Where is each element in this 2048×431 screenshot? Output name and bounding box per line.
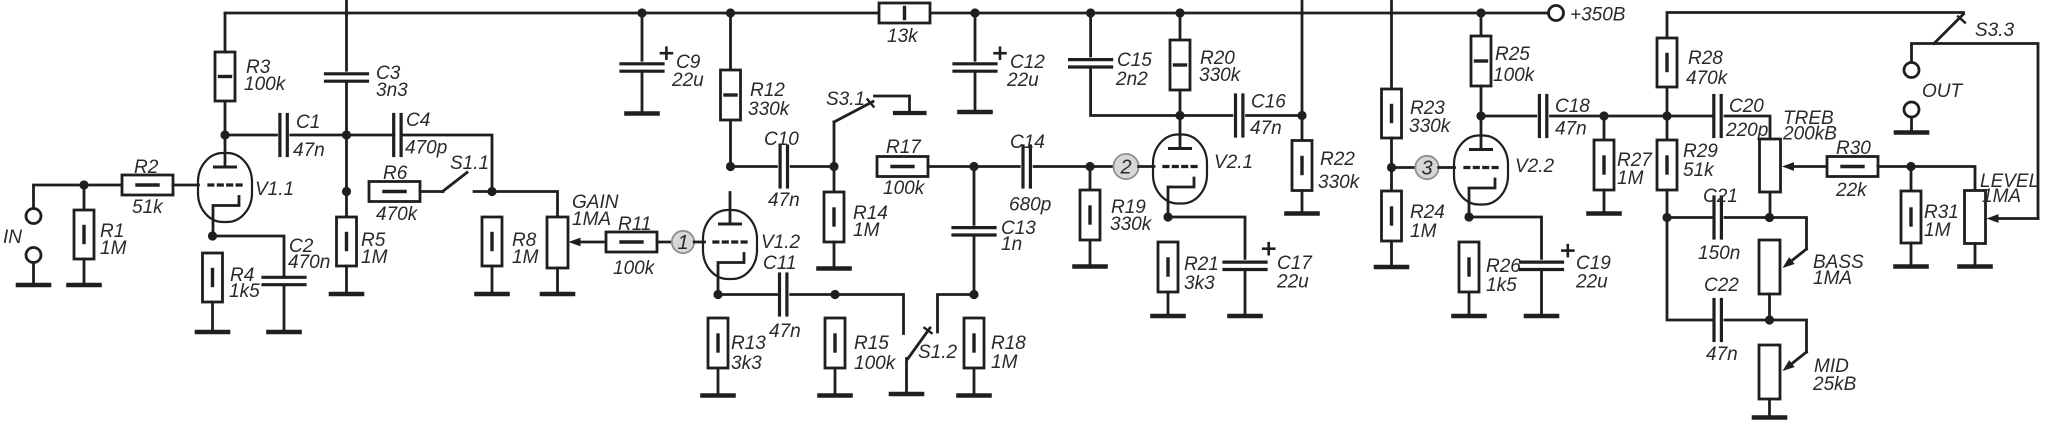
wire R1 top lead	[83, 185, 86, 210]
ground R27	[1589, 211, 1620, 216]
wire R28 top to S3.3	[1667, 13, 1964, 39]
wire OUT to S3.3 contact and level wiper	[1912, 44, 2039, 219]
wire TREB pot bottom lead	[1769, 192, 1772, 218]
capacitor C22	[1714, 300, 1721, 341]
svg-text:3k3: 3k3	[731, 353, 762, 374]
ground R21	[1153, 314, 1184, 319]
resistor R31	[1901, 191, 1921, 243]
svg-text:470p: 470p	[405, 138, 447, 159]
svg-text:C21: C21	[1703, 186, 1738, 207]
wire R1 bottom lead	[83, 259, 86, 283]
wiper arrow LEVEL	[1987, 214, 2039, 223]
resistor R18	[964, 318, 984, 368]
node BASS/MID/C22	[1765, 315, 1774, 324]
svg-text:200kB: 200kB	[1782, 124, 1837, 145]
svg-text:R17: R17	[886, 137, 922, 158]
wire C11 to R15 node	[791, 293, 835, 296]
svg-text:IN: IN	[3, 227, 22, 248]
ground R15	[820, 393, 851, 398]
svg-text:R15: R15	[854, 333, 889, 354]
resistor R21	[1158, 242, 1178, 292]
svg-text:S3.1: S3.1	[826, 89, 865, 110]
svg-text:470k: 470k	[376, 204, 419, 225]
wire bus corner to R3	[224, 13, 227, 52]
resistor R27	[1594, 140, 1614, 190]
wire MID pot bottom lead	[1768, 399, 1771, 416]
svg-text:330k: 330k	[1409, 116, 1452, 137]
resistor R26	[1459, 242, 1479, 292]
svg-text:3: 3	[1421, 158, 1432, 180]
wire cathode to C11	[718, 293, 777, 296]
capacitor C15	[1070, 60, 1112, 67]
wire R24 top lead	[1390, 168, 1393, 192]
svg-text:C1: C1	[296, 112, 320, 133]
wire R14 bottom lead	[833, 242, 836, 266]
ground R14	[819, 266, 850, 271]
wire off-page to C16/R22 node	[1301, 0, 1304, 116]
wire R20 bottom lead	[1179, 90, 1182, 116]
wire C14 to R19 node	[1034, 165, 1090, 168]
node V2.2 cathode	[1464, 212, 1473, 221]
resistor R19	[1080, 190, 1100, 240]
wire IN upper to grid node	[34, 185, 123, 209]
ground R18	[959, 393, 990, 398]
wire +350B bus left segment	[225, 12, 879, 15]
resistor R23	[1382, 89, 1402, 138]
svg-text:C10: C10	[764, 129, 799, 150]
wire BASS wiper riser	[1770, 218, 1807, 250]
wire anode to C10	[731, 165, 777, 168]
svg-text:100k: 100k	[854, 353, 897, 374]
ground S1.2	[891, 392, 922, 397]
svg-text:R2: R2	[134, 157, 159, 178]
svg-text:R12: R12	[750, 80, 785, 101]
resistor R22	[1292, 141, 1312, 191]
wire R24 bottom lead	[1390, 241, 1393, 265]
wire R11 to node 1	[657, 241, 672, 244]
svg-text:22u: 22u	[1006, 70, 1039, 91]
wire +350B bus right segment	[930, 12, 1549, 15]
node TREB/BASS	[1765, 213, 1774, 222]
wire R31 bottom lead	[1910, 243, 1913, 265]
switch S1.1	[443, 173, 468, 192]
svg-text:1: 1	[677, 232, 688, 254]
svg-text:C22: C22	[1704, 275, 1739, 296]
wire MID wiper riser	[1770, 320, 1807, 352]
switch S3.1 fixed contact bar	[895, 111, 925, 115]
capacitor C1	[280, 115, 287, 156]
switch S1.2	[907, 328, 932, 392]
svg-text:330k: 330k	[1318, 172, 1361, 193]
wire C12 top lead	[974, 13, 977, 60]
node V1.1 cathode	[208, 231, 217, 240]
capacitor C20	[1714, 96, 1721, 137]
wire GAIN pot bottom lead	[556, 268, 559, 292]
potentiometer BASS	[1759, 240, 1780, 294]
wire R13 bottom lead	[717, 368, 720, 393]
wire off-page to R23 top	[1390, 0, 1393, 89]
svg-text:47n: 47n	[1706, 344, 1738, 365]
triode V1.1	[198, 136, 252, 237]
capacitor C11	[780, 274, 787, 315]
svg-text:3k3: 3k3	[1184, 273, 1215, 294]
resistor R2	[122, 175, 173, 195]
node R5/R6	[342, 187, 351, 196]
capacitor C17 (polar)	[1224, 243, 1274, 269]
potentiometer GAIN 1MA	[547, 217, 568, 268]
resistor R28	[1657, 38, 1677, 87]
svg-text:1MA: 1MA	[572, 209, 611, 230]
node circle 1	[672, 231, 694, 254]
ground OUT	[1896, 130, 1927, 135]
wire C9 top lead	[641, 13, 644, 60]
wire R27 top lead	[1603, 116, 1606, 140]
resistor R6	[369, 182, 420, 202]
svg-text:R30: R30	[1836, 138, 1871, 159]
capacitor C18	[1539, 96, 1546, 137]
wire LEVEL pot bottom lead	[1974, 244, 1977, 265]
svg-text:R22: R22	[1320, 149, 1355, 170]
wire anode to C1	[225, 134, 277, 137]
node bus C12	[970, 8, 979, 17]
svg-text:100k: 100k	[883, 178, 926, 199]
node bus R12	[726, 8, 735, 17]
wire R25 bottom lead	[1480, 86, 1483, 116]
node V2.2 anode	[1476, 111, 1485, 120]
node C10/R17/R14/S3.1	[829, 162, 838, 171]
wire C1 to node A	[291, 134, 347, 137]
ground R22	[1287, 211, 1318, 216]
wire R22 bottom lead	[1301, 191, 1304, 212]
triode V1.2	[703, 193, 757, 295]
wire C12 bottom lead	[974, 71, 977, 110]
ground R13	[703, 393, 734, 398]
wire R21 bottom lead	[1167, 292, 1170, 314]
wire OUT lower to ground	[1910, 117, 1913, 130]
resistor R13	[708, 318, 728, 368]
triode V2.1	[1153, 117, 1207, 217]
svg-text:+350B: +350B	[1570, 5, 1626, 26]
ground C19	[1526, 314, 1557, 319]
wire C20 to TREB pot	[1725, 116, 1770, 139]
svg-text:C4: C4	[406, 110, 430, 131]
ground R19	[1075, 264, 1106, 269]
resistor R25	[1471, 36, 1491, 86]
svg-text:C16: C16	[1251, 92, 1286, 113]
ground C2	[269, 330, 300, 335]
resistor R1	[74, 210, 94, 259]
wire C13 column	[973, 167, 976, 225]
svg-text:1M: 1M	[100, 238, 127, 259]
svg-text:47n: 47n	[769, 321, 801, 342]
capacitor C21	[1714, 197, 1721, 238]
resistor R5	[337, 217, 357, 266]
svg-text:100k: 100k	[1493, 65, 1536, 86]
svg-text:470n: 470n	[288, 252, 330, 273]
svg-text:47n: 47n	[768, 190, 800, 211]
wire R25 top lead	[1480, 13, 1483, 36]
ground R5	[331, 292, 362, 297]
wire R23 bottom to node 3	[1390, 138, 1393, 168]
ground R26	[1454, 314, 1485, 319]
ground C12	[960, 110, 991, 115]
resistor R12	[721, 70, 741, 120]
wire C10 to S3.1 node	[791, 165, 834, 168]
node R18/S1.2	[969, 290, 978, 299]
wire C22 to MID node	[1725, 319, 1770, 322]
wire R29 bottom lead	[1666, 190, 1669, 218]
svg-text:C11: C11	[763, 253, 796, 274]
wire node A to C4	[347, 134, 394, 137]
svg-text:22u: 22u	[1575, 272, 1608, 293]
wire anode to C18	[1481, 115, 1536, 118]
ground C17	[1230, 314, 1261, 319]
wire node to C14	[974, 165, 1019, 168]
wire R28 bottom lead	[1666, 87, 1669, 116]
wire IN lower to ground	[32, 263, 35, 284]
wire C2 bottom lead	[283, 287, 286, 331]
svg-text:R18: R18	[991, 333, 1026, 354]
wire node to circle 2	[1090, 165, 1113, 168]
wire C19 bottom lead	[1540, 270, 1543, 315]
wire R3 bottom to anode node	[224, 101, 227, 135]
wire R12 bottom to anode node	[729, 120, 732, 167]
node R29/C21/C22	[1662, 213, 1671, 222]
wire R17 to C14 node	[928, 165, 974, 168]
wire R27 bottom lead	[1603, 190, 1606, 211]
wire node to C21	[1667, 216, 1714, 219]
svg-text:1k5: 1k5	[229, 281, 260, 302]
svg-text:51k: 51k	[132, 197, 164, 218]
wire cathode to C17	[1168, 217, 1245, 258]
resistor R14	[824, 192, 844, 242]
ground GAIN pot	[542, 292, 573, 297]
wire node to C20	[1667, 115, 1714, 118]
wire cathode to C19	[1469, 217, 1542, 258]
svg-text:1MA: 1MA	[1982, 186, 2021, 207]
terminal IN upper	[26, 209, 41, 224]
node A C1/C3/C4	[342, 130, 351, 139]
resistor R4	[203, 253, 223, 302]
svg-text:47n: 47n	[293, 140, 325, 161]
svg-text:C18: C18	[1555, 96, 1590, 117]
wiper arrow MID	[1783, 352, 1807, 371]
svg-text:22u: 22u	[671, 70, 704, 91]
wire S1.2 right contact to R18 node	[938, 295, 975, 333]
svg-text:V2.2: V2.2	[1515, 156, 1555, 177]
wire C13 to R18 node	[973, 235, 976, 295]
wire R19 bottom lead	[1089, 240, 1092, 264]
triode V2.2	[1454, 118, 1508, 217]
node bus C9	[637, 8, 646, 17]
wire circle 3 to V2.2 grid	[1439, 166, 1455, 169]
wire S3.1 riser	[833, 122, 836, 167]
svg-text:330k: 330k	[1199, 65, 1242, 86]
svg-text:51k: 51k	[1683, 160, 1715, 181]
svg-text:680p: 680p	[1009, 195, 1051, 216]
node V1.2 anode	[726, 162, 735, 171]
ground IN	[18, 283, 49, 288]
wire R5 bottom lead	[345, 266, 348, 292]
svg-text:330k: 330k	[1110, 214, 1153, 235]
svg-text:22k: 22k	[1835, 180, 1868, 201]
svg-text:C20: C20	[1729, 96, 1764, 117]
wire R29 top lead	[1666, 116, 1669, 140]
wire R20 top lead	[1179, 13, 1182, 40]
svg-text:V2.1: V2.1	[1214, 152, 1253, 173]
wire C22 column	[1667, 218, 1714, 321]
svg-text:100k: 100k	[613, 258, 656, 279]
resistor R29	[1657, 140, 1677, 190]
node R30/R31/LEVEL	[1906, 162, 1915, 171]
svg-text:C15: C15	[1117, 50, 1152, 71]
wire R6 to S1.1 contact	[420, 190, 443, 193]
node bus R25	[1476, 8, 1485, 17]
wire anode to C16	[1180, 114, 1232, 117]
capacitor C10	[780, 146, 787, 187]
wire node to LEVEL pot	[1911, 167, 1975, 191]
wire R2 to V1.1 grid	[173, 184, 199, 187]
node circle 3	[1415, 156, 1438, 180]
ground MID pot	[1754, 415, 1785, 420]
wire R30 to R31 node	[1878, 165, 1911, 168]
potentiometer TREB	[1760, 139, 1781, 192]
node R28/R29/C20	[1662, 111, 1671, 120]
terminal IN lower	[26, 248, 41, 263]
svg-text:22u: 22u	[1276, 272, 1309, 293]
node bus R20	[1175, 8, 1184, 17]
wire cathode to C2	[213, 236, 285, 276]
node C18/R27	[1599, 111, 1608, 120]
node C11/R15	[830, 290, 839, 299]
resistor R24	[1382, 191, 1402, 241]
wire R31 top lead	[1910, 167, 1913, 192]
wire R26 bottom lead	[1468, 292, 1471, 314]
wire R8 bottom lead	[491, 266, 494, 292]
node C14/R19	[1085, 162, 1094, 171]
svg-text:S1.2: S1.2	[918, 342, 958, 363]
wiper arrow GAIN	[569, 238, 607, 247]
resistor 13k (supply dropper)	[879, 3, 930, 23]
svg-text:1M: 1M	[1617, 168, 1644, 189]
wire R15 bottom lead	[834, 368, 837, 393]
svg-text:S3.3: S3.3	[1975, 20, 2015, 41]
svg-text:R28: R28	[1688, 48, 1723, 69]
wire R4 bottom lead	[211, 302, 214, 330]
resistor R30	[1827, 157, 1878, 177]
switch S3.1	[834, 96, 910, 122]
svg-text:1n: 1n	[1001, 234, 1022, 255]
svg-text:13k: 13k	[887, 26, 919, 47]
wiper arrow BASS	[1783, 249, 1807, 268]
node C13/C14	[969, 162, 978, 171]
resistor R17	[877, 157, 928, 177]
node V1.1 anode	[220, 130, 229, 139]
ground R4	[197, 330, 228, 335]
wire C3 bottom to R5/R6 node	[345, 83, 348, 217]
ground R31	[1896, 264, 1927, 269]
wire C9 bottom lead	[641, 71, 644, 111]
capacitor C14	[1023, 146, 1030, 187]
terminal OUT upper	[1904, 63, 1919, 78]
ground LEVEL pot	[1960, 264, 1991, 269]
ground R8	[477, 292, 508, 297]
wire C17 bottom lead	[1244, 270, 1247, 315]
wire R12 top lead	[729, 13, 732, 70]
wire R19 top lead	[1089, 167, 1092, 191]
wire BASS pot bottom lead	[1768, 294, 1771, 320]
resistor R20	[1170, 40, 1190, 90]
svg-text:47n: 47n	[1555, 119, 1587, 140]
svg-text:2: 2	[1119, 157, 1131, 179]
svg-text:25kB: 25kB	[1812, 374, 1857, 395]
svg-text:V1.2: V1.2	[761, 232, 801, 253]
svg-text:470k: 470k	[1686, 68, 1729, 89]
svg-text:R21: R21	[1184, 254, 1219, 275]
svg-text:1M: 1M	[1410, 221, 1437, 242]
svg-text:R24: R24	[1410, 202, 1445, 223]
switch S3.3	[1934, 14, 1965, 44]
wire C15 top lead	[1089, 13, 1092, 56]
svg-text:R29: R29	[1683, 141, 1718, 162]
wire off-page to C3 top	[345, 0, 348, 70]
terminal +350B	[1549, 6, 1564, 21]
node V2.1 cathode	[1163, 212, 1172, 221]
capacitor C9 (polar)	[621, 48, 672, 71]
potentiometer MID	[1759, 345, 1780, 399]
wire R18 bottom lead	[973, 368, 976, 393]
svg-text:C14: C14	[1010, 132, 1045, 153]
capacitor C4	[394, 115, 401, 156]
svg-text:R6: R6	[383, 163, 408, 184]
capacitor C3	[326, 74, 368, 81]
capacitor C12 (polar)	[954, 48, 1006, 71]
capacitor C16	[1236, 95, 1243, 136]
wire C21 to BASS node	[1725, 216, 1770, 219]
node V2.1 anode	[1175, 111, 1184, 120]
wire C15 bottom to anode node	[1091, 67, 1180, 116]
resistor R15	[825, 318, 845, 368]
svg-text:1M: 1M	[1924, 220, 1951, 241]
svg-text:100k: 100k	[244, 74, 287, 95]
terminal OUT lower	[1904, 102, 1919, 117]
svg-text:OUT: OUT	[1922, 81, 1964, 102]
svg-text:3n3: 3n3	[376, 80, 408, 101]
svg-text:R13: R13	[731, 333, 766, 354]
capacitor C19 (polar)	[1521, 245, 1574, 269]
capacitor C2	[263, 277, 305, 284]
node V1.2 cathode	[713, 290, 722, 299]
capacitor C13	[953, 228, 995, 235]
node R23/R24	[1387, 163, 1396, 172]
svg-text:R25: R25	[1495, 44, 1530, 65]
wire R14 top lead	[833, 167, 836, 193]
wire node 1 to V1.2 grid	[694, 241, 704, 244]
svg-text:S1.1: S1.1	[450, 153, 489, 174]
svg-text:V1.1: V1.1	[255, 179, 294, 200]
svg-text:R26: R26	[1486, 256, 1521, 277]
svg-text:330k: 330k	[748, 99, 791, 120]
svg-text:1k5: 1k5	[1486, 275, 1517, 296]
node C16/R22	[1297, 111, 1306, 120]
wire C16 to R22 node	[1247, 114, 1302, 117]
potentiometer LEVEL	[1965, 191, 1986, 244]
wire C18 to R27 node	[1551, 115, 1605, 118]
svg-text:R11: R11	[618, 214, 651, 235]
svg-text:1MA: 1MA	[1813, 268, 1852, 289]
svg-text:1M: 1M	[361, 247, 388, 268]
wire C4 to S1.1 node	[401, 135, 492, 192]
